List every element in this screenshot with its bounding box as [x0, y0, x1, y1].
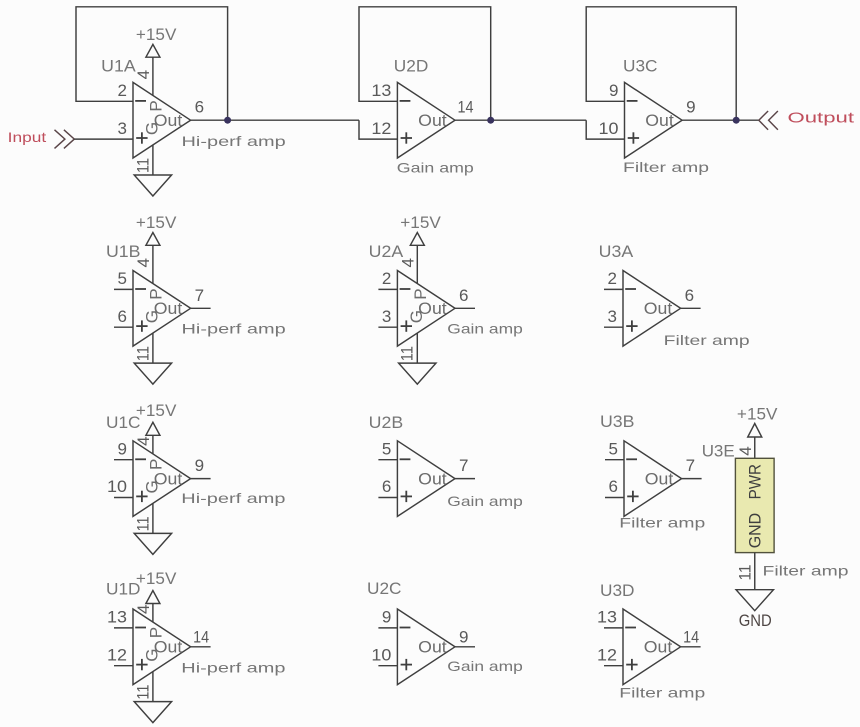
svg-text:10: 10: [599, 119, 619, 138]
U1B non-inverting input marker: [136, 325, 147, 327]
svg-text:10: 10: [371, 645, 391, 664]
U1D non-inverting input marker: [136, 664, 147, 666]
U1C inverting input marker: [135, 458, 146, 460]
U2C inverting input marker: [400, 627, 411, 629]
op-amp U2A body: [397, 271, 455, 347]
U1A ground symbol: [134, 175, 171, 196]
U1D pin 14 output wire: [191, 646, 211, 648]
svg-text:Output: Output: [788, 109, 856, 126]
U2C non-inverting input marker: [401, 664, 412, 666]
op-amp U2D body: [397, 82, 455, 158]
wire U3C output to Output port: [682, 119, 759, 121]
U1D ground symbol: [134, 702, 171, 723]
svg-text:Gain amp: Gain amp: [447, 321, 523, 337]
U2A pin 6 output wire: [455, 307, 475, 309]
svg-text:9: 9: [686, 98, 695, 117]
svg-text:P: P: [147, 627, 166, 638]
U2D input step wire: [359, 120, 397, 139]
U3E pin 4 power wire: [754, 437, 756, 458]
U2A +15V power arrow: [410, 233, 424, 246]
U1C ground symbol: [134, 533, 171, 554]
op-amp U3A body: [623, 271, 681, 347]
svg-text:6: 6: [118, 307, 127, 326]
svg-text:9: 9: [195, 456, 204, 475]
svg-text:6: 6: [382, 477, 391, 496]
U1A feedback wire: [76, 7, 228, 120]
svg-text:2: 2: [608, 269, 617, 288]
svg-text:14: 14: [193, 627, 209, 646]
svg-text:11: 11: [133, 685, 152, 700]
U3A non-inverting input marker: [626, 325, 637, 327]
U3D pin 12 wire: [604, 665, 623, 667]
U3E body: [735, 458, 774, 552]
svg-text:U2B: U2B: [369, 413, 404, 432]
U1D inverting input marker: [135, 627, 146, 629]
svg-text:Gain amp: Gain amp: [397, 159, 474, 175]
svg-text:PWR: PWR: [746, 464, 765, 499]
U2D inverting input marker: [400, 100, 411, 102]
svg-text:4: 4: [134, 436, 153, 445]
U3D non-inverting input marker: [626, 664, 637, 666]
U3E pin 11 ground wire: [754, 553, 756, 590]
U2D non-inverting input marker: [401, 137, 412, 139]
svg-text:14: 14: [683, 627, 699, 646]
U2B pin 7 output wire: [455, 478, 475, 480]
U3E ground symbol: [736, 590, 773, 611]
svg-text:6: 6: [685, 286, 694, 305]
svg-text:13: 13: [107, 608, 127, 627]
svg-text:U3A: U3A: [599, 242, 634, 261]
svg-text:P: P: [147, 100, 166, 111]
svg-text:+15V: +15V: [136, 569, 177, 588]
U2A pin 3 wire: [378, 326, 397, 328]
U3D pin 14 output wire: [681, 646, 701, 648]
op-amp U1A body: [133, 82, 191, 158]
op-amp U3C body: [625, 82, 683, 158]
svg-text:9: 9: [382, 608, 391, 627]
svg-text:Out: Out: [418, 638, 447, 657]
svg-text:G: G: [143, 648, 162, 661]
U3B non-inverting input marker: [627, 495, 638, 497]
op-amp U3D: [597, 581, 706, 701]
svg-text:U2D: U2D: [394, 57, 429, 76]
svg-text:Out: Out: [418, 469, 447, 488]
U2A ground symbol: [399, 363, 436, 384]
svg-text:G: G: [143, 480, 162, 493]
op-amp U1B: [106, 213, 286, 384]
output port chevron: [759, 111, 778, 130]
svg-text:+15V: +15V: [737, 405, 778, 424]
svg-text:Out: Out: [644, 638, 673, 657]
U1B pin 7 output wire: [191, 307, 211, 309]
svg-text:Hi-perf amp: Hi-perf amp: [182, 133, 286, 149]
U2A inverting input marker: [400, 288, 411, 290]
U2C pin 9 output wire: [455, 646, 475, 648]
U2D feedback wire: [359, 7, 491, 120]
svg-text:2: 2: [118, 81, 127, 100]
U1D pin 12 wire: [114, 665, 133, 667]
svg-text:Gain amp: Gain amp: [447, 493, 523, 509]
svg-text:Out: Out: [645, 469, 674, 488]
svg-text:4: 4: [134, 70, 153, 79]
svg-text:11: 11: [735, 565, 754, 581]
U3B inverting input marker: [626, 458, 637, 460]
svg-text:Gain amp: Gain amp: [447, 658, 523, 674]
svg-text:P: P: [147, 288, 166, 299]
svg-text:P: P: [147, 459, 166, 470]
svg-text:11: 11: [133, 516, 152, 531]
svg-text:+15V: +15V: [136, 25, 177, 44]
svg-text:6: 6: [459, 286, 468, 305]
U1B +15V power arrow: [146, 233, 160, 246]
U2A pin 4 power wire: [416, 245, 418, 283]
U2B non-inverting input marker: [401, 495, 412, 497]
svg-text:+15V: +15V: [136, 213, 177, 232]
U3A pin 2 wire: [604, 288, 623, 290]
U3E +15V power arrow: [748, 424, 762, 438]
node U3C output junction: [733, 117, 740, 124]
U1D pin 11 ground wire: [152, 672, 154, 702]
svg-text:5: 5: [118, 269, 127, 288]
svg-text:6: 6: [609, 477, 618, 496]
svg-text:Hi-perf amp: Hi-perf amp: [182, 320, 286, 336]
U3B pin 7 output wire: [682, 478, 702, 480]
svg-text:GND: GND: [746, 513, 765, 548]
svg-text:3: 3: [608, 307, 617, 326]
U1D +15V power arrow: [146, 591, 160, 604]
wire U1A output to U2D: [191, 119, 359, 121]
input port chevron: [55, 130, 75, 149]
svg-text:9: 9: [118, 439, 127, 458]
svg-text:U1A: U1A: [101, 56, 136, 75]
U2B inverting input marker: [400, 458, 411, 460]
svg-text:GND: GND: [739, 611, 772, 630]
op-amp U1B body: [133, 271, 191, 347]
svg-text:G: G: [143, 122, 162, 135]
svg-text:13: 13: [597, 608, 617, 627]
U1A inverting input marker: [135, 100, 146, 102]
svg-text:3: 3: [382, 307, 391, 326]
svg-text:Out: Out: [418, 111, 447, 130]
op-amp U3D body: [623, 609, 681, 685]
svg-text:2: 2: [382, 269, 391, 288]
op-amp U3A: [599, 242, 750, 348]
U3C non-inverting input marker: [628, 137, 639, 139]
U3C feedback wire: [586, 7, 736, 120]
wire Input to U1A pin 3: [74, 138, 133, 140]
U1A pin 4 power wire: [152, 57, 154, 95]
op-amp U1D body: [133, 609, 191, 685]
U2A non-inverting input marker: [401, 325, 412, 327]
svg-text:G: G: [143, 310, 162, 323]
U1A pin 11 ground wire: [152, 145, 154, 175]
op-amp U3C: [599, 57, 710, 176]
U1B inverting input marker: [135, 288, 146, 290]
svg-text:U2C: U2C: [367, 579, 402, 598]
svg-text:Out: Out: [644, 299, 673, 318]
U1D pin 4 power wire: [152, 604, 154, 623]
U1C pin 4 power wire: [152, 435, 154, 454]
wire U2D output to U3C: [455, 119, 586, 121]
svg-text:3: 3: [118, 119, 127, 138]
svg-text:U3D: U3D: [600, 581, 635, 600]
U1B pin 6 wire: [114, 326, 133, 328]
svg-text:Hi-perf amp: Hi-perf amp: [181, 490, 285, 506]
svg-text:9: 9: [459, 627, 468, 646]
svg-text:+15V: +15V: [136, 401, 177, 420]
U1B ground symbol: [134, 363, 171, 384]
op-amp U3B: [600, 412, 706, 530]
op-amp U2A: [369, 213, 523, 384]
op-amp U2D: [371, 57, 474, 176]
U3A pin 6 output wire: [681, 307, 701, 309]
svg-text:Filter amp: Filter amp: [619, 514, 705, 530]
svg-text:Filter amp: Filter amp: [623, 159, 709, 175]
svg-text:10: 10: [107, 477, 127, 496]
svg-text:4: 4: [134, 605, 153, 614]
svg-text:Out: Out: [645, 111, 674, 130]
op-amp U1C body: [133, 441, 191, 517]
U2B pin 6 wire: [378, 497, 397, 499]
U1B pin 4 power wire: [152, 245, 154, 283]
U3C inverting input marker: [627, 100, 638, 102]
svg-text:5: 5: [382, 439, 391, 458]
U1C non-inverting input marker: [136, 495, 147, 497]
U3A pin 3 wire: [604, 326, 623, 328]
svg-text:12: 12: [597, 645, 617, 664]
U3A inverting input marker: [625, 288, 636, 290]
power block U3E: [702, 405, 849, 631]
U3B pin 6 wire: [605, 497, 624, 499]
svg-text:11: 11: [133, 158, 152, 173]
U3D pin 13 wire: [604, 627, 623, 629]
op-amp U2C: [367, 579, 523, 685]
svg-text:Filter amp: Filter amp: [664, 332, 750, 348]
U1C +15V power arrow: [146, 422, 160, 435]
op-amp U1C: [106, 401, 286, 555]
U1C pin 11 ground wire: [152, 503, 154, 533]
node U2D output junction: [487, 117, 494, 124]
op-amp U2C body: [397, 609, 455, 685]
svg-text:11: 11: [398, 346, 417, 361]
U1B pin 5 wire: [114, 288, 133, 290]
svg-text:Filter amp: Filter amp: [763, 562, 849, 578]
svg-text:U3C: U3C: [623, 57, 658, 76]
svg-text:12: 12: [371, 119, 391, 138]
svg-text:14: 14: [458, 98, 474, 117]
svg-text:7: 7: [459, 456, 468, 475]
U1C pin 10 wire: [114, 497, 133, 499]
svg-text:7: 7: [686, 456, 695, 475]
U2C pin 10 wire: [378, 665, 397, 667]
node U1A output junction: [224, 117, 231, 124]
U1D pin 13 wire: [114, 627, 133, 629]
svg-text:6: 6: [195, 98, 204, 117]
op-amp U1D: [106, 569, 286, 723]
svg-text:G: G: [407, 310, 426, 323]
svg-text:Filter amp: Filter amp: [619, 685, 705, 701]
U2B pin 5 wire: [378, 459, 397, 461]
U2C pin 9 wire: [378, 627, 397, 629]
svg-text:4: 4: [399, 258, 418, 267]
U2A pin 2 wire: [378, 288, 397, 290]
svg-text:Input: Input: [8, 129, 47, 145]
svg-text:9: 9: [609, 81, 618, 100]
U3D inverting input marker: [625, 627, 636, 629]
U3C input step wire: [586, 120, 624, 139]
U3B pin 5 wire: [605, 459, 624, 461]
op-amp U1A: [101, 25, 286, 196]
svg-text:12: 12: [107, 645, 127, 664]
op-amp U2B body: [397, 441, 455, 517]
svg-text:4: 4: [736, 446, 755, 455]
U1A +15V power arrow: [146, 44, 160, 57]
svg-text:13: 13: [371, 81, 391, 100]
U1C pin 9 wire: [114, 459, 133, 461]
U1C pin 9 output wire: [191, 478, 211, 480]
svg-text:4: 4: [134, 258, 153, 267]
U1B pin 11 ground wire: [152, 333, 154, 363]
svg-text:U3E: U3E: [702, 441, 735, 460]
U1A non-inverting input marker: [136, 137, 147, 139]
svg-text:+15V: +15V: [400, 213, 441, 232]
svg-text:U3B: U3B: [600, 412, 635, 431]
op-amp U3B body: [624, 441, 682, 517]
svg-text:P: P: [411, 288, 430, 299]
svg-text:5: 5: [609, 439, 618, 458]
U2A pin 11 ground wire: [416, 333, 418, 363]
svg-text:11: 11: [133, 346, 152, 361]
op-amp U2B: [369, 413, 523, 517]
svg-text:7: 7: [195, 286, 204, 305]
svg-text:Hi-perf amp: Hi-perf amp: [181, 659, 285, 675]
